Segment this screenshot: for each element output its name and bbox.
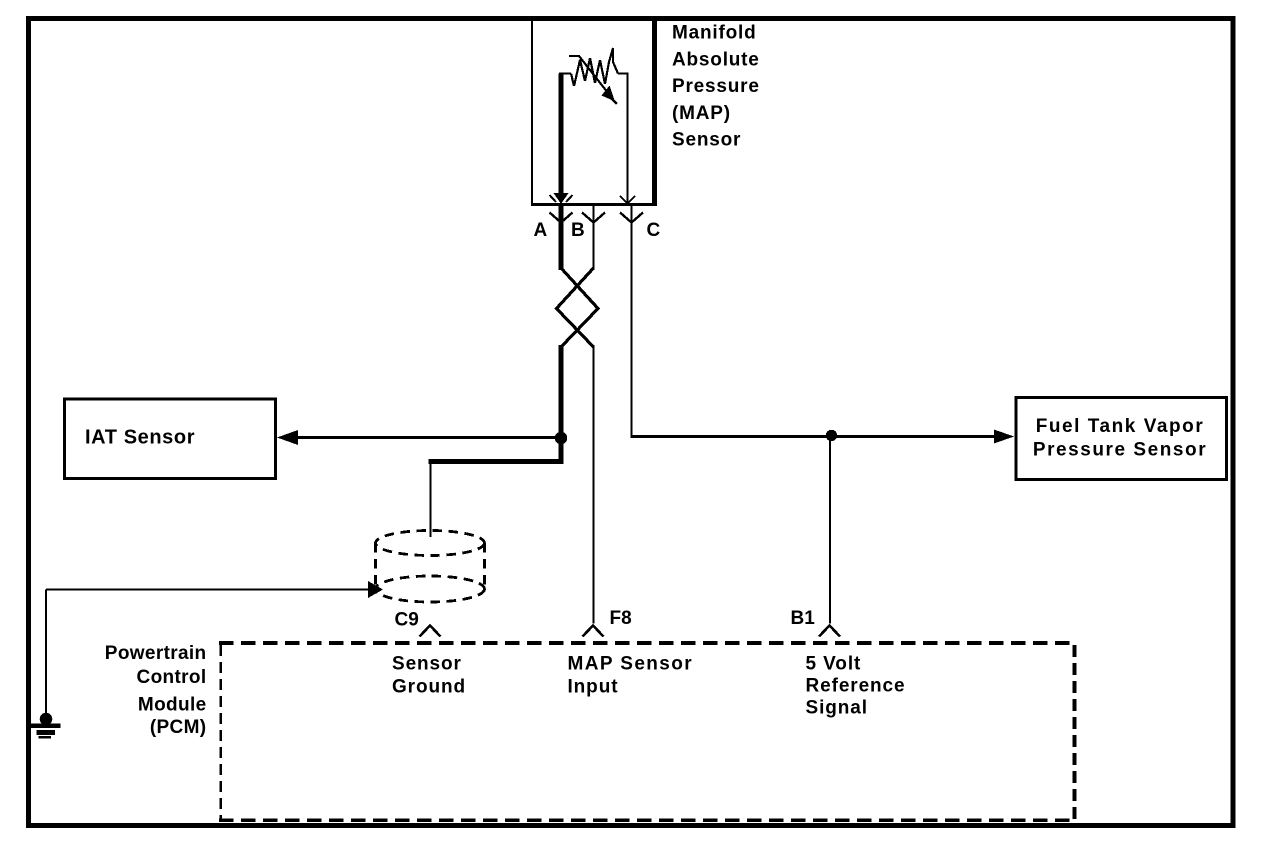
svg-text:Input: Input bbox=[568, 677, 619, 698]
svg-text:(PCM): (PCM) bbox=[150, 717, 207, 738]
arrowhead into IAT sensor bbox=[277, 430, 298, 445]
svg-text:Reference: Reference bbox=[806, 676, 906, 697]
wire: from splice left toward ground bbox=[46, 588, 370, 590]
svg-text:Pressure: Pressure bbox=[672, 76, 760, 97]
node: junction dot for 5V reference branch bbox=[826, 430, 837, 441]
wire: twisted pair, conductor B bbox=[557, 268, 594, 347]
pin C connector symbol bbox=[620, 206, 643, 437]
svg-text:C9: C9 bbox=[395, 610, 419, 631]
wire: pin C horizontal run to Fuel Tank Vapor Pressure Sensor bbox=[631, 435, 997, 438]
svg-text:Fuel Tank Vapor: Fuel Tank Vapor bbox=[1036, 416, 1205, 437]
label: Fuel Tank Vapor Pressure Sensor bbox=[1033, 416, 1207, 461]
ground G1 (chassis ground symbol) bbox=[28, 713, 61, 739]
resistor R1 arrowhead (diagonal arrow tip) bbox=[602, 86, 616, 102]
svg-text:Absolute: Absolute bbox=[672, 50, 760, 71]
PCM pin C9 connector symbol bbox=[420, 626, 441, 637]
pin A connector symbol bbox=[550, 206, 573, 270]
wire: thick elbow from junction down-left toward splice bbox=[429, 438, 562, 462]
svg-text:A: A bbox=[534, 220, 548, 241]
wire: conductor A from twist down to splice node bbox=[559, 345, 564, 462]
svg-text:MAP Sensor: MAP Sensor bbox=[568, 654, 694, 675]
svg-text:Ground: Ground bbox=[392, 677, 466, 698]
wire: vertical drop into splice S1 bbox=[429, 462, 431, 538]
svg-text:C: C bbox=[647, 220, 661, 241]
pin B connector symbol bbox=[582, 206, 605, 270]
wire: vertical down to chassis ground bbox=[45, 590, 47, 715]
label: Manifold Absolute Pressure (MAP) Sensor bbox=[672, 23, 760, 151]
arrowhead into splice bbox=[368, 581, 383, 598]
svg-text:IAT Sensor: IAT Sensor bbox=[85, 427, 195, 449]
label: Powertrain Control Module (PCM) bbox=[105, 643, 207, 738]
node: junction dot on sensor-ground wire (IAT branch) bbox=[555, 432, 567, 444]
svg-text:Pressure Sensor: Pressure Sensor bbox=[1033, 440, 1207, 461]
svg-text:(MAP): (MAP) bbox=[672, 103, 731, 124]
arrowhead into fuel tank vapor pressure sensor bbox=[994, 430, 1014, 444]
svg-text:Manifold: Manifold bbox=[672, 23, 757, 44]
wire: twisted pair, conductor A (thick) bbox=[561, 268, 598, 347]
PCM pin B1 connector symbol bbox=[819, 626, 840, 637]
svg-text:Sensor: Sensor bbox=[392, 654, 462, 675]
svg-text:Signal: Signal bbox=[806, 698, 868, 719]
wire: horizontal to IAT sensor bbox=[290, 436, 561, 439]
IAT sensor box bbox=[64, 399, 275, 479]
svg-text:Sensor: Sensor bbox=[672, 130, 741, 151]
resistor R1 (variable resistor element inside MAP sensor) bbox=[559, 48, 629, 104]
svg-text:B1: B1 bbox=[791, 608, 816, 629]
wire: conductor B from twist down to PCM pin F8 bbox=[593, 345, 595, 624]
svg-text:Module: Module bbox=[138, 695, 207, 716]
wire: MAP internal right leg (pin C) with down arrow bbox=[620, 74, 635, 204]
svg-text:F8: F8 bbox=[610, 608, 632, 629]
svg-text:Control: Control bbox=[137, 667, 207, 688]
splice S1 (dashed cylinder) bbox=[376, 531, 485, 603]
wire: MAP internal left leg (pin A) with down arrow bbox=[550, 74, 573, 205]
svg-text:Powertrain: Powertrain bbox=[105, 643, 207, 664]
MAP sensor box U1 (Manifold Absolute Pressure Sensor enclosure) bbox=[531, 18, 657, 206]
PCM dashed enclosure (Powertrain Control Module) bbox=[219, 643, 1075, 820]
wire: 5 volt reference down to PCM pin B1 bbox=[829, 437, 831, 624]
svg-text:B: B bbox=[571, 220, 585, 241]
svg-text:5 Volt: 5 Volt bbox=[806, 654, 862, 675]
PCM pin F8 connector symbol bbox=[583, 626, 604, 637]
fuel tank vapor pressure sensor box bbox=[1016, 397, 1227, 479]
